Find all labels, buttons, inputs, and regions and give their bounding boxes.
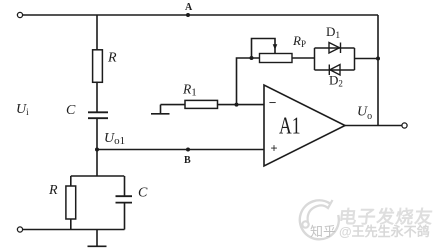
wire R1 to inverting input [218,104,265,106]
wire ground to R1 [161,104,186,106]
node Uo1 junction [95,148,99,152]
capacitor C series [88,112,108,118]
wire right vertical [377,15,379,126]
watermark logo hook [308,200,333,223]
watermark logo circle [300,200,339,239]
svg-text:R1: R1 [182,82,197,99]
node feedback junction [376,57,380,61]
diode box frame [315,48,355,70]
resistor R1 [185,100,218,108]
Rp wiper arrowhead [273,44,278,50]
wire series branch drop [96,15,98,50]
wire C to bottom rail [124,203,126,230]
wire C down to node Uo1 [96,119,98,176]
svg-text:A: A [185,2,193,13]
svg-text:RP: RP [292,33,306,49]
svg-text:C: C [138,186,148,201]
op-amp A1 [264,85,345,166]
ground bar [88,245,107,247]
wire top rail [23,14,378,16]
wire diode box to output vertical [355,58,379,60]
svg-text:−: − [269,95,277,110]
diode D1 [329,43,341,54]
wire left branch to R [70,176,72,186]
wire R to bottom rail [70,219,72,230]
capacitor C parallel [116,196,133,202]
ground stub [96,230,98,247]
wire right branch to C [124,176,126,196]
node B [186,148,190,152]
wire parallel RC top rail [71,175,124,177]
wire node B line [97,149,264,151]
svg-text:Ui: Ui [16,102,29,117]
svg-text:Uo: Uo [357,105,372,123]
diode D2 [329,65,340,76]
wire Rp left leg [237,58,260,105]
svg-text:知乎: 知乎 [310,224,336,239]
watermark logo small circle [302,221,308,227]
resistor R parallel [66,186,76,219]
wire bottom rail [23,229,125,231]
ground R1 [151,105,170,114]
node A [186,13,190,17]
watermark [300,200,435,239]
input terminal top-left [17,12,22,17]
svg-text:R: R [107,51,117,66]
Rp wiper arm [252,39,276,59]
wire output [345,125,402,127]
svg-text:D2: D2 [329,73,343,89]
resistor R series [93,50,103,83]
svg-text:Uo1: Uo1 [104,131,125,147]
svg-text:@王先生永不鸽: @王先生永不鸽 [339,224,430,239]
potentiometer Rp body [260,54,293,63]
svg-text:D1: D1 [326,24,340,41]
output terminal [402,123,407,128]
svg-text:A1: A1 [279,114,301,140]
wire Rp to diode box [292,57,315,59]
node wiper junction [250,56,254,60]
input terminal bottom-left [17,227,22,232]
svg-text:B: B [184,155,191,166]
svg-text:C: C [66,103,76,118]
svg-text:R: R [48,183,58,198]
node R1/Rp junction [235,103,239,107]
wire R to C [96,82,98,112]
svg-text:+: + [271,141,278,155]
